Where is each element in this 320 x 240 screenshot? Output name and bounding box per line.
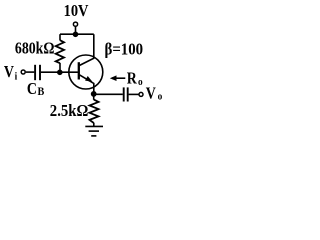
transistor Q1 emitter lead with arrow [80, 75, 94, 94]
output terminal [139, 92, 143, 96]
node emitter junction [91, 91, 97, 97]
wire CB to base [41, 71, 78, 73]
wire emitter node to output cap [94, 93, 123, 95]
input terminal [21, 70, 25, 74]
node supply junction [73, 32, 79, 38]
wire rail left drop to R1 [59, 34, 61, 40]
svg-text:C: C [27, 80, 37, 99]
resistor R1 680k zigzag [56, 40, 64, 63]
svg-text:V: V [4, 63, 15, 82]
wire input terminal to CB [26, 71, 35, 73]
svg-text:R: R [127, 69, 138, 88]
transistor Q1 collector lead [80, 34, 94, 65]
svg-text:o: o [158, 91, 163, 103]
transistor Q1 circle [69, 55, 103, 89]
arrow Ro pointing left [112, 77, 125, 79]
wire R1 bottom to base node [59, 63, 61, 72]
svg-text:680kΩ: 680kΩ [15, 39, 55, 58]
wire output cap to terminal [129, 93, 139, 95]
ground [85, 125, 103, 127]
node base junction [57, 70, 63, 76]
capacitor Co plates [123, 87, 125, 101]
svg-text:B: B [38, 85, 45, 98]
svg-text:V: V [146, 84, 157, 103]
svg-text:β=100: β=100 [105, 41, 144, 59]
svg-text:i: i [15, 71, 18, 83]
svg-text:10V: 10V [64, 2, 89, 20]
resistor R2 2.5k zigzag [90, 100, 99, 123]
wire R2 bottom to ground [93, 123, 95, 127]
supply terminal [73, 22, 77, 26]
svg-text:2.5kΩ: 2.5kΩ [50, 102, 89, 120]
svg-text:o: o [138, 77, 143, 89]
wire supply terminal to rail [75, 27, 77, 34]
transistor Q1 base bar [78, 62, 80, 79]
capacitor CB plates [34, 65, 36, 80]
wire emitter node to R2 [93, 94, 95, 100]
wire top rail [60, 33, 94, 35]
